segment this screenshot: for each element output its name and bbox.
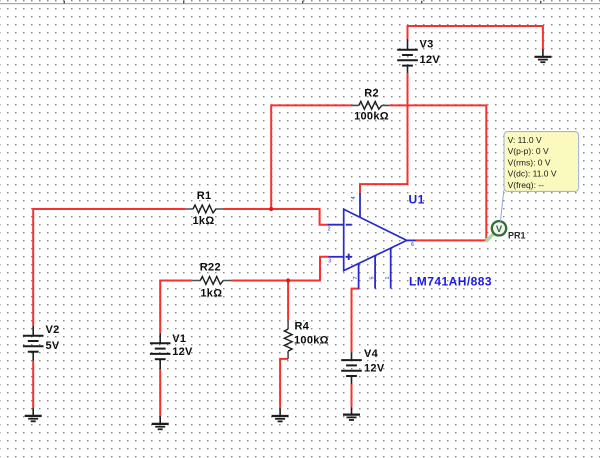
wire V1 bottom to ground <box>159 369 161 416</box>
probe PR1 <box>485 221 526 243</box>
svg-text:R1: R1 <box>197 190 212 202</box>
wire R4 bottom to ground <box>280 359 288 408</box>
ground (V4) <box>343 407 360 420</box>
battery V4 <box>341 348 385 384</box>
svg-text:V2: V2 <box>46 324 60 336</box>
resistor R4 <box>284 320 328 359</box>
svg-text:V1: V1 <box>172 333 186 345</box>
svg-text:2: 2 <box>328 227 331 233</box>
svg-text:V3: V3 <box>420 38 434 50</box>
svg-text:R4: R4 <box>295 321 310 333</box>
wire R1 right to op-amp inverting input <box>224 209 328 225</box>
op-amp U1 <box>328 193 416 289</box>
wire V3 top to ground top right <box>408 26 543 49</box>
wire feedback left vertical to R2 <box>271 105 351 209</box>
probe readout tooltip <box>500 132 578 222</box>
ground (R4) <box>272 408 289 421</box>
junction node at R1 / feedback <box>269 207 273 211</box>
battery V1 <box>150 333 193 369</box>
svg-text:100kΩ: 100kΩ <box>354 111 389 123</box>
svg-text:V(dc): 11.0 V: V(dc): 11.0 V <box>508 169 557 179</box>
wire R2 right to feedback corner <box>390 105 487 240</box>
svg-text:6: 6 <box>411 242 414 248</box>
wire V1 top to R22 left <box>160 281 192 334</box>
svg-text:V(freq): --: V(freq): -- <box>508 180 545 190</box>
ground (V2) <box>25 408 42 421</box>
svg-text:3: 3 <box>328 259 331 265</box>
svg-text:V(rms): 0 V: V(rms): 0 V <box>508 157 551 167</box>
wire V4 bottom to ground <box>351 384 353 407</box>
svg-text:5: 5 <box>369 276 375 279</box>
svg-text:12V: 12V <box>364 362 385 374</box>
svg-text:LM741AH/883: LM741AH/883 <box>409 274 492 288</box>
wire op-amp output <box>416 239 486 241</box>
svg-text:12V: 12V <box>172 346 193 358</box>
resistor R22 <box>192 262 231 300</box>
svg-text:R22: R22 <box>200 262 221 274</box>
ground (V1) <box>152 416 169 429</box>
svg-text:R2: R2 <box>364 88 379 100</box>
wire junction to R4 top <box>287 281 289 321</box>
svg-text:1kΩ: 1kΩ <box>193 215 215 227</box>
wire V4 top to op-amp pin 7 <box>352 289 360 353</box>
svg-text:1kΩ: 1kΩ <box>200 287 222 299</box>
svg-text:PR1: PR1 <box>508 230 526 240</box>
resistor R1 <box>185 190 224 227</box>
wire V2 bottom to ground <box>32 361 34 408</box>
resistor R2 <box>351 88 390 123</box>
svg-text:V: 11.0 V: V: 11.0 V <box>508 135 542 145</box>
svg-text:V4: V4 <box>364 348 379 360</box>
svg-text:100kΩ: 100kΩ <box>294 335 329 347</box>
wire R22 right to op-amp non-inverting input <box>231 257 328 281</box>
wire V2 to R1 left (net A left) <box>33 209 185 326</box>
junction node at R22 / R4 <box>286 278 290 282</box>
battery V2 <box>23 324 60 361</box>
svg-text:5V: 5V <box>46 340 60 352</box>
svg-text:12V: 12V <box>420 54 441 66</box>
svg-text:V: V <box>496 224 503 235</box>
svg-text:7: 7 <box>353 276 359 279</box>
svg-text:V(p-p): 0 V: V(p-p): 0 V <box>508 146 549 156</box>
wire V3 bottom to op-amp V- pin <box>360 73 408 193</box>
ground (top right) <box>534 49 551 62</box>
svg-text:1: 1 <box>385 276 391 279</box>
svg-text:U1: U1 <box>409 192 425 206</box>
battery V3 <box>397 38 440 72</box>
